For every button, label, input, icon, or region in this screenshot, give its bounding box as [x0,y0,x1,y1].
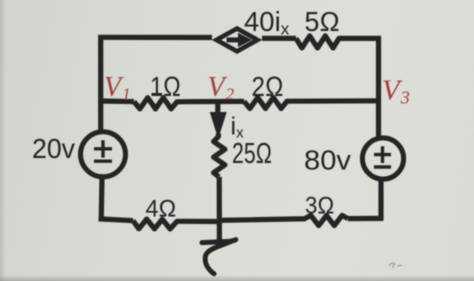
wire V2 stub down to current arrow [215,101,220,114]
voltage source V 80v circle [362,138,403,179]
wire middle V1 segment [98,98,134,104]
wire 3-ohm to center junction [217,219,298,221]
ground symbol [202,240,236,274]
voltage source V 20v circle [81,132,126,177]
wire bottom-right horizontal (corner to 3-ohm) [348,216,383,221]
wire V1-V2 middle segment [184,99,244,104]
wire 25ohm down through junction to ground [217,177,222,242]
plus-minus inside 80v source [374,146,391,167]
foot of digit 1 [152,93,163,96]
current arrow ix (filled wedge) [210,112,227,139]
arrow inside dependent source [227,37,241,42]
wire 80V source bottom to bottom-right corner [378,180,383,221]
faint smudge mark [389,263,402,268]
resistor R 4ohm zigzag [133,219,184,229]
resistor R 5ohm zigzag [296,36,343,48]
resistor R 3ohm zigzag [298,215,348,225]
wire 2ohm to V3 [293,98,381,104]
resistor R 25ohm vertical zigzag [214,134,225,177]
wire dependent source to 5-ohm resistor [262,36,296,41]
wire 4-ohm to center junction [184,219,220,224]
wire top horizontal left (corner to dependent source) [98,35,212,40]
dependent current source U1 diamond [217,29,258,52]
wire bottom-left horizontal (corner to 4-ohm) [99,219,133,221]
wire top-left vertical (top corner to 20V source) [98,35,103,133]
resistor R 1ohm zigzag [134,98,184,109]
wire 5-ohm to top-right corner [343,36,381,41]
wire 20V source bottom to bottom-left corner [99,177,105,222]
plus-minus inside 20v source [94,140,112,161]
resistor R 2ohm zigzag [244,98,293,109]
wire right vertical (top corner to V3 to 80V source) [376,36,381,139]
